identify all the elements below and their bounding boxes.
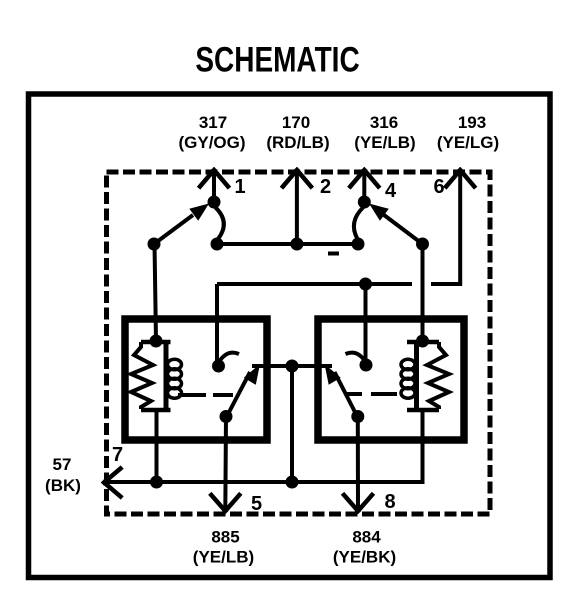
node center wire top bbox=[286, 360, 299, 373]
wire horizontal row y284 bbox=[217, 282, 412, 286]
pin 8 arrow bbox=[344, 495, 372, 511]
left coil bottom wire bbox=[155, 410, 159, 482]
pin 4 wire bbox=[362, 170, 366, 202]
pin 7 arrow bbox=[104, 469, 121, 497]
contact arc pin4 bbox=[354, 207, 364, 239]
node left relay common bbox=[212, 360, 225, 373]
node bus left bbox=[211, 238, 224, 251]
svg-text:(YE/LG): (YE/LG) bbox=[437, 133, 499, 152]
right upper switch arm bbox=[384, 215, 423, 244]
wire left drop to left relay common bbox=[215, 284, 219, 366]
svg-text:193: 193 bbox=[458, 113, 486, 132]
relay box right bbox=[318, 319, 464, 440]
svg-text:(GY/OG): (GY/OG) bbox=[178, 133, 245, 152]
node right coil top bbox=[416, 335, 429, 348]
svg-text:8: 8 bbox=[384, 491, 395, 513]
left relay switch arm bbox=[227, 372, 251, 417]
svg-text:(YE/LB): (YE/LB) bbox=[193, 548, 254, 567]
node left coil top bbox=[150, 335, 163, 348]
svg-text:2: 2 bbox=[320, 176, 331, 198]
svg-text:884: 884 bbox=[352, 528, 381, 547]
left relay contact arc bbox=[219, 353, 239, 362]
speck artifact bbox=[328, 252, 339, 256]
svg-text:(YE/BK): (YE/BK) bbox=[333, 548, 396, 567]
right coil bottom bar bbox=[407, 408, 439, 413]
node y284 branch bbox=[359, 278, 372, 291]
svg-text:(BK): (BK) bbox=[45, 476, 81, 495]
right coil winding loops bbox=[401, 359, 415, 398]
pin 2 wire bbox=[295, 170, 299, 244]
node right relay common bbox=[360, 359, 373, 372]
svg-text:57: 57 bbox=[53, 455, 72, 474]
svg-text:5: 5 bbox=[251, 493, 262, 515]
svg-text:(RD/LB): (RD/LB) bbox=[266, 133, 329, 152]
node ground center bbox=[286, 476, 299, 489]
pin 6 arrow bbox=[446, 170, 474, 187]
wire pin8 bbox=[356, 417, 360, 511]
node ground left coil bbox=[150, 476, 163, 489]
outer border frame bbox=[29, 94, 551, 578]
pin 2 arrow bbox=[283, 170, 311, 187]
svg-text:7: 7 bbox=[112, 444, 123, 466]
wire center drop bbox=[290, 366, 294, 482]
svg-text:1: 1 bbox=[234, 176, 245, 198]
node pin1 contact bbox=[208, 196, 221, 209]
svg-text:6: 6 bbox=[433, 176, 444, 198]
left coil resistor zigzag bbox=[131, 342, 153, 409]
pin 5 arrow bbox=[211, 495, 239, 511]
right relay switch arm bbox=[335, 372, 358, 417]
contact arc pin1 bbox=[215, 207, 224, 239]
relay box left bbox=[125, 319, 267, 440]
wire pin6 drop to right relay common bbox=[364, 284, 368, 365]
left coil top bar bbox=[141, 340, 171, 345]
dashed connector boundary box bbox=[107, 172, 491, 514]
wire right pivot to right coil bbox=[421, 244, 425, 341]
right coil top bar bbox=[407, 340, 439, 345]
node pin4 contact bbox=[358, 196, 371, 209]
pin 1 wire bbox=[212, 170, 216, 202]
pin 6 wire down to node row bbox=[431, 170, 460, 284]
svg-text:(YE/LB): (YE/LB) bbox=[354, 133, 415, 152]
right relay contact arc bbox=[346, 353, 366, 362]
right coil bottom wire bbox=[104, 410, 423, 482]
left coil spine bbox=[164, 342, 169, 410]
wire bus y244 bbox=[217, 242, 358, 246]
node bus right bbox=[352, 238, 365, 251]
left upper switch arm bbox=[154, 215, 193, 244]
node bus pin2 bbox=[290, 238, 303, 251]
right relay linkage dashes bbox=[345, 392, 397, 396]
junction dots bbox=[148, 196, 430, 489]
pin 1 arrow bbox=[200, 170, 228, 187]
right coil spine bbox=[414, 342, 419, 410]
wire left pivot to left coil bbox=[155, 244, 157, 341]
svg-text:SCHEMATIC: SCHEMATIC bbox=[195, 39, 359, 79]
svg-text:316: 316 bbox=[370, 113, 398, 132]
right coil resistor zigzag bbox=[427, 342, 449, 409]
wire between relays y366 bbox=[252, 364, 332, 368]
left relay linkage dashes bbox=[178, 393, 233, 397]
node left pivot bbox=[148, 238, 161, 251]
node right pivot bbox=[416, 238, 429, 251]
svg-text:4: 4 bbox=[385, 180, 397, 202]
svg-text:885: 885 bbox=[211, 528, 239, 547]
wire pin5 bbox=[223, 417, 228, 511]
svg-text:317: 317 bbox=[199, 113, 227, 132]
node right relay arm bottom bbox=[351, 410, 364, 423]
node left relay arm bottom bbox=[220, 410, 233, 423]
pin 4 arrow bbox=[350, 170, 378, 187]
left coil bottom bar bbox=[141, 408, 171, 413]
left coil winding loops bbox=[168, 359, 182, 398]
svg-text:170: 170 bbox=[282, 113, 310, 132]
